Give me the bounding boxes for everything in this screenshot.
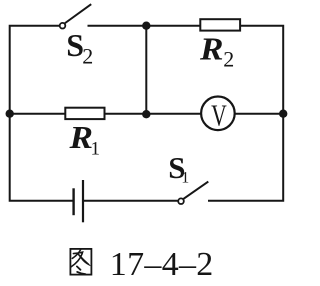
wire middle vertical (node to middle branch) <box>145 26 147 115</box>
node left junction <box>6 110 14 118</box>
node right junction <box>279 110 287 118</box>
caption character 图 <box>70 249 91 275</box>
resistor R2 <box>200 19 240 30</box>
wire right vertical (middle node to bottom-right corner) <box>208 114 283 201</box>
node top junction <box>142 22 150 30</box>
wire top-right (S2 to top-right corner) <box>88 26 284 114</box>
svg-text:2: 2 <box>223 47 234 72</box>
label S2 <box>66 27 93 69</box>
svg-text:R: R <box>199 31 224 67</box>
node middle junction <box>142 110 150 118</box>
wire bottom middle (battery to switch S1) <box>84 200 178 202</box>
switch S1 <box>178 182 208 204</box>
resistor R1 <box>65 108 104 119</box>
label R1 <box>68 119 100 160</box>
battery B <box>74 180 83 222</box>
voltmeter V <box>201 97 235 131</box>
svg-text:1: 1 <box>181 170 189 187</box>
svg-text:1: 1 <box>91 139 101 160</box>
svg-text:R: R <box>68 119 93 155</box>
wire middle horizontal (R1 / voltmeter branch) <box>10 113 284 115</box>
label S1 <box>168 150 189 187</box>
label R2 <box>199 31 234 72</box>
svg-text:2: 2 <box>82 44 93 69</box>
wire top-left (left corner to switch S2) <box>10 26 60 114</box>
wire left vertical (middle node to bottom-left corner) <box>10 114 73 201</box>
switch S2 <box>60 4 91 28</box>
svg-text:17–4–2: 17–4–2 <box>110 246 214 281</box>
svg-text:V: V <box>211 98 227 133</box>
